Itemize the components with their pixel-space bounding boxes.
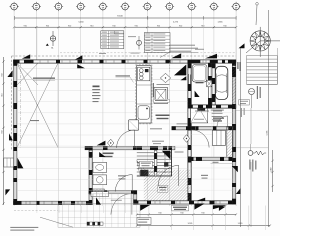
through column marker 3 [75, 55, 82, 59]
bottom dimension lines [136, 212, 271, 226]
svg-text:910: 910 [135, 25, 138, 27]
through column marker 18 [236, 188, 241, 194]
meter box outside left wall [4, 158, 14, 167]
overhang dashed left [11, 56, 13, 150]
grid label circle 2 [32, 2, 41, 11]
svg-text:910: 910 [179, 25, 182, 27]
utility pole with guy wire [248, 144, 266, 155]
void label [30, 120, 39, 121]
through column marker 7 [181, 76, 187, 80]
grid line v11 [235, 11, 237, 206]
bottom wall text [111, 199, 122, 202]
bath wall note [177, 122, 188, 125]
grid label circle 11 [232, 2, 241, 11]
through column marker 14 [162, 151, 171, 160]
svg-text:1.040: 1.040 [271, 168, 273, 173]
GL level box [137, 218, 151, 225]
svg-text:910: 910 [158, 212, 161, 214]
site hline right [236, 109, 280, 111]
counter note [116, 75, 134, 82]
upper floor overhang dashed line [12, 55, 237, 57]
dark equipment box [164, 162, 168, 166]
neighbor steps ladder [247, 56, 278, 85]
svg-text:910: 910 [157, 25, 160, 27]
wall connector toilet [89, 190, 93, 204]
dressing label block [211, 110, 224, 121]
grid label circle 9 [187, 2, 196, 11]
grid label circle 1 [10, 2, 19, 11]
door arc washroom [191, 130, 209, 148]
floor access hatch [154, 88, 168, 104]
bottom-left area text [10, 227, 38, 231]
stair label box [140, 161, 153, 167]
grid label circle 3 [54, 2, 63, 11]
washroom label 2 [118, 175, 126, 179]
svg-text:910: 910 [223, 25, 226, 27]
interior wall kitchen-bath [188, 63, 192, 201]
balcony above dashed line [60, 52, 236, 54]
equipment diamond 3 [183, 135, 189, 143]
through column marker 9 [195, 91, 200, 97]
utility room label [103, 153, 114, 158]
dressing south wall [191, 126, 236, 130]
right dimension line [271, 150, 274, 192]
svg-text:910: 910 [2, 130, 4, 133]
open-ceiling void X marks [17, 63, 58, 147]
interior wall bath south [188, 105, 236, 109]
svg-text:910: 910 [90, 25, 93, 27]
grid line v6 [124, 11, 126, 206]
through column marker 5 [174, 65, 186, 76]
porch north wall [190, 157, 233, 161]
site boundary line 2 [268, 10, 270, 227]
exterior wall bottom east [133, 201, 235, 205]
site boundary line 3b [250, 162, 252, 227]
grid label circle 7 [143, 2, 152, 11]
carport left wall [212, 63, 216, 105]
LDK room label [92, 86, 101, 103]
door arc toilet [111, 194, 132, 215]
utility room south wall [89, 190, 136, 194]
grid line v10 [213, 11, 215, 206]
tree symbol [246, 27, 280, 57]
terrace tile grid [58, 204, 140, 227]
through column marker 6 [171, 53, 181, 58]
porch side hatched wall [227, 127, 233, 159]
kitchen note box [154, 99, 169, 102]
through column marker 20 [5, 189, 10, 195]
exterior wall bottom west [14, 201, 92, 205]
bottom-left leader line [40, 217, 73, 227]
stair note text [152, 141, 164, 144]
kitchen label [156, 115, 170, 120]
car in carport [216, 66, 228, 99]
hood dashed line [169, 59, 171, 72]
extension lines from dims [15, 19, 237, 60]
pole vertical text [249, 160, 256, 172]
rain pit symbol [128, 36, 142, 54]
kitchen counter with stove and sink [136, 65, 152, 124]
bath size text [195, 48, 204, 51]
refrigerator [129, 120, 139, 130]
misc speck porch fl [213, 162, 219, 163]
grid line v4 [80, 11, 82, 206]
through column marker 2 [7, 70, 12, 77]
right margin label box [239, 100, 250, 106]
through column marker 8 [205, 54, 217, 59]
site line right short [276, 48, 278, 84]
carport right wall hatch [233, 63, 236, 104]
through column marker 13 [99, 152, 105, 157]
door arc utility from hall [117, 130, 135, 148]
dark blob near tree [239, 43, 245, 48]
misc speck right margin 1 [241, 108, 242, 117]
through column marker 22 [96, 197, 101, 204]
area schedule table [101, 31, 124, 49]
grid line v3 [58, 11, 60, 206]
washing machine [93, 175, 107, 185]
svg-text:5.460: 5.460 [78, 22, 84, 24]
left dimension line [2, 57, 5, 205]
manhole symbol [249, 89, 255, 109]
through column marker 21 [232, 166, 238, 172]
grid label circle 5 [98, 2, 107, 11]
svg-text:910: 910 [201, 212, 204, 214]
through column marker 1 [22, 54, 30, 58]
porch label [201, 175, 208, 179]
vanity [93, 162, 107, 172]
svg-text:910: 910 [180, 212, 183, 214]
interior wall bath-carport [208, 63, 215, 105]
porch inside wedge [196, 198, 205, 201]
bath sliding door [188, 74, 190, 85]
grid line v1 [13, 11, 15, 206]
finish schedule table [144, 33, 170, 53]
kitchen side vertical text [153, 83, 154, 97]
exterior wall right [232, 60, 236, 204]
svg-text:5.005: 5.005 [267, 131, 269, 136]
grid label circle 8 [165, 2, 174, 11]
grid label circle 6 [121, 2, 130, 11]
window mullion ticks [26, 60, 220, 204]
module dimension line [13, 22, 237, 29]
hatched shelf on south wall [91, 189, 104, 194]
floor grid faint lines [17, 68, 232, 200]
overall dimension line 9100 [15, 15, 237, 20]
grid label circle 10 [209, 2, 218, 11]
staircase [137, 150, 172, 176]
misc speck stair note [175, 152, 184, 153]
benchmark GL marker [46, 31, 56, 49]
PS shaft box [207, 80, 212, 86]
grid line v9 [191, 11, 193, 206]
outside unit row [91, 192, 109, 197]
grid line v8 [169, 11, 171, 206]
through column marker 10 [9, 133, 13, 140]
svg-text:910: 910 [201, 25, 204, 27]
svg-text:3.185: 3.185 [188, 223, 193, 225]
bathtub [192, 64, 207, 82]
kitchen top text [157, 83, 170, 86]
utility room label 2 [0, 0, 1, 1]
through column marker 16 [194, 204, 204, 210]
entrance tiled floor hatch [144, 170, 190, 201]
through column marker 11 [17, 158, 23, 169]
svg-text:GL: GL [51, 47, 54, 49]
through column marker 15 [140, 205, 150, 211]
exterior wall top [14, 60, 236, 64]
carport side vertical text [237, 62, 240, 71]
svg-text:1.820: 1.820 [238, 223, 243, 225]
equipment diamond 1 [160, 73, 170, 82]
grid line v2 [35, 11, 37, 206]
site boundary line 1 [240, 48, 242, 227]
graphic scale bar [87, 222, 103, 225]
through column marker 17 [213, 205, 227, 209]
neighbor fence line [236, 147, 269, 149]
closet with X [191, 108, 208, 123]
svg-text:1.365: 1.365 [217, 22, 223, 24]
bottom extension lines [37, 206, 266, 231]
svg-text:910: 910 [46, 25, 49, 27]
survey flag marker [256, 3, 259, 26]
interior wall bath-utility [172, 126, 191, 130]
note annotation [160, 45, 198, 58]
manhole vertical text [257, 86, 261, 99]
door arc dressing [217, 116, 228, 127]
speck below table1 [99, 52, 106, 55]
interior wall LDK-utility [85, 146, 175, 150]
terrace tile grid upper [92, 194, 133, 204]
misc speck washroom top [150, 128, 162, 129]
storage box [213, 130, 226, 145]
door arc utility inner [115, 175, 132, 192]
site boundary line 3 [250, 108, 252, 144]
through column marker 12 [97, 141, 106, 146]
storage label [213, 118, 224, 122]
grid label circle 4 [76, 2, 85, 11]
svg-text:910: 910 [68, 25, 71, 27]
through column marker 4 [77, 64, 85, 68]
utility text below bath [195, 111, 222, 112]
through column marker 19 [219, 207, 226, 211]
svg-text:9.100: 9.100 [117, 15, 123, 17]
svg-text:910: 910 [2, 73, 4, 76]
site hline right 2 [247, 84, 278, 86]
genkan label box [158, 185, 168, 192]
grid line v5 [102, 11, 104, 206]
svg-text:910: 910 [24, 25, 27, 27]
utility west wall [89, 146, 93, 193]
entrance door arc [158, 165, 179, 186]
wall connector hall [133, 190, 137, 204]
porch step line [211, 163, 233, 165]
note 2F overhang [33, 78, 55, 81]
bath label UB [196, 77, 204, 83]
genkan porch label box [172, 205, 189, 211]
grid line v7 [146, 11, 148, 206]
bottom dashed line west [14, 210, 58, 212]
svg-text:2.275: 2.275 [173, 22, 179, 24]
svg-text:910: 910 [112, 25, 115, 27]
washroom size label [0, 0, 1, 1]
misc speck right margin 2 [244, 108, 245, 115]
exterior wall left [13, 60, 17, 205]
equipment diamond 2 [108, 139, 114, 147]
